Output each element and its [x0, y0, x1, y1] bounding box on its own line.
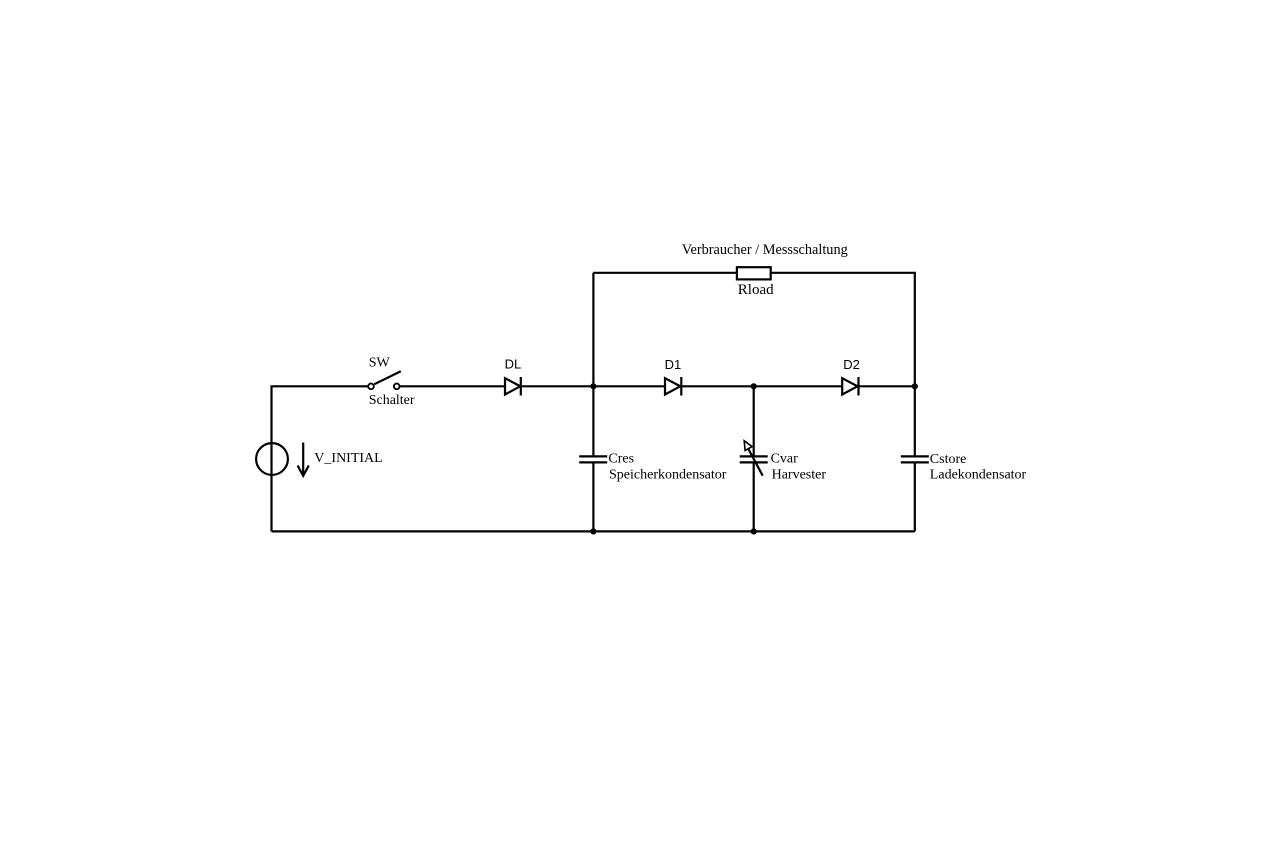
svg-text:Verbraucher / Messschaltung: Verbraucher / Messschaltung — [682, 242, 848, 258]
svg-text:Cres: Cres — [608, 452, 634, 467]
svg-text:SW: SW — [369, 356, 391, 371]
svg-text:V_INITIAL: V_INITIAL — [314, 451, 382, 466]
svg-text:Harvester: Harvester — [772, 467, 827, 482]
svg-text:Ladekondensator: Ladekondensator — [930, 468, 1027, 483]
svg-text:Speicherkondensator: Speicherkondensator — [609, 467, 727, 482]
svg-text:D2: D2 — [843, 357, 860, 372]
svg-text:Schalter: Schalter — [369, 393, 415, 408]
svg-text:DL: DL — [505, 357, 522, 372]
svg-text:Rload: Rload — [738, 282, 774, 298]
svg-text:Cvar: Cvar — [771, 452, 799, 467]
svg-text:D1: D1 — [665, 357, 682, 372]
svg-text:Cstore: Cstore — [930, 452, 967, 467]
